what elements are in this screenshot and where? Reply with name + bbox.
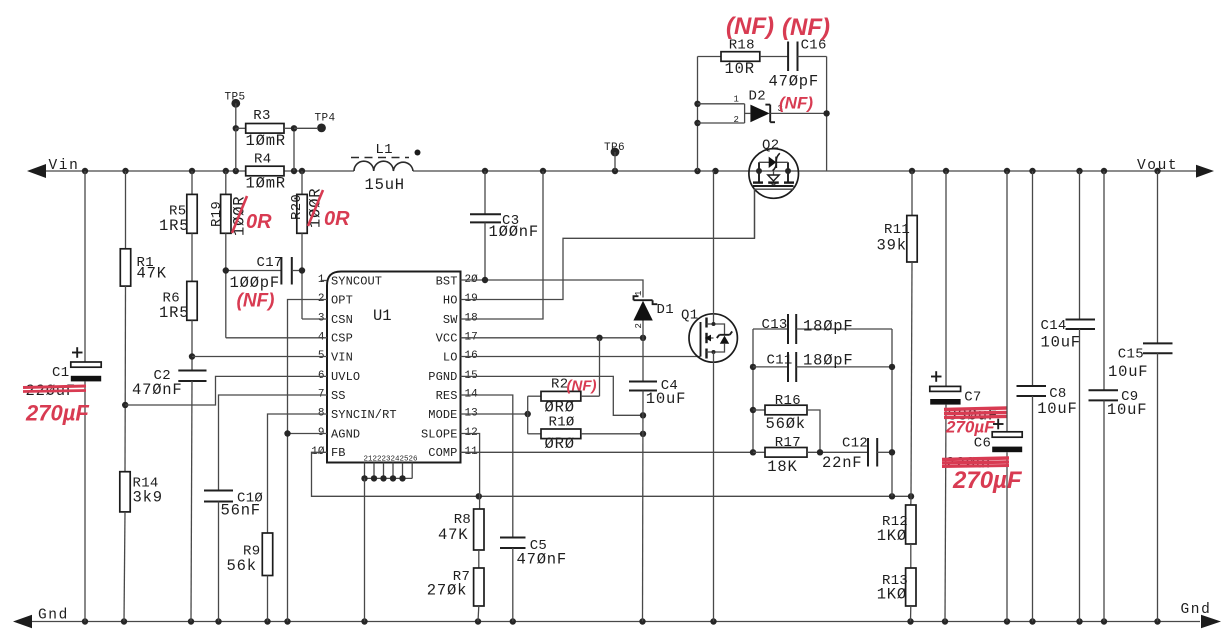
resistor R7 [474,568,484,606]
node UVLO-divider junction [122,402,128,408]
svg-text:HO: HO [443,293,458,307]
junction bottom rail x=1007 [1004,618,1010,624]
svg-text:39k: 39k [877,237,907,255]
svg-text:SLOPE: SLOPE [421,427,458,441]
resistor R17 [753,451,765,453]
wire comp net left vertical [752,329,754,452]
capacitor C3 [484,171,486,214]
svg-text:R11: R11 [884,222,910,238]
junction top rail x=615 [612,168,618,174]
svg-text:L1: L1 [375,142,392,158]
capacitor C11 [753,366,788,368]
node FB-R12 [908,493,914,499]
node D2 pin3 [823,110,829,116]
svg-text:TP6: TP6 [604,142,625,154]
node FB-compnet [889,493,895,499]
svg-text:SW: SW [443,313,458,327]
svg-text:1KØ: 1KØ [877,586,907,604]
junction bottom rail x=713.5 [710,618,716,624]
capacitor C16 [787,42,789,72]
wire R5-R6 [191,233,193,281]
svg-text:Vin: Vin [49,158,80,174]
svg-text:OPT: OPT [331,293,353,307]
svg-text:(NF): (NF) [726,13,774,40]
svg-text:10uF: 10uF [1107,401,1147,419]
junction pin bus x=393 [390,475,396,481]
resistor R1 [125,171,127,249]
resistor R18 [698,56,722,58]
wire CSP to R19/C17 [226,337,327,339]
resistor R11 [911,171,913,216]
svg-text:R20: R20 [289,194,305,220]
svg-text:AGND: AGND [331,427,360,441]
wire R1-R14 node [124,405,126,472]
wire VCC to D1 anode [461,337,644,339]
capacitor C1 (electrolytic) [84,171,86,362]
capacitor C4 [642,338,644,382]
junction pin bus x=402.5 [399,475,405,481]
junction bottom rail x=287.5 [284,618,290,624]
junction top rail x=715.5 [712,168,718,174]
svg-text:18ØpF: 18ØpF [803,352,854,370]
svg-text:1KØ: 1KØ [877,527,907,545]
resistor R6 [187,281,197,320]
junction bottom rail x=267.5 [264,618,270,624]
svg-text:(NF): (NF) [237,291,275,312]
capacitor C12 [867,438,869,467]
node R16-R17 [817,449,823,455]
junction top rail x=1104 [1101,168,1107,174]
junction top rail x=125.5 [122,168,128,174]
node PGND-C4 [640,412,646,418]
resistor R10 [528,433,541,435]
junction top rail x=697.5 [694,168,700,174]
capacitor C10 [204,490,233,492]
junction bottom rail x=364.5 [361,618,367,624]
wire R3 left to rail [235,128,237,171]
capacitor C14 [1079,171,1081,320]
resistor R19 [225,171,227,194]
svg-text:56Øk: 56Øk [766,415,806,433]
junction bottom rail x=191 [188,618,194,624]
node VCC-D1 [640,335,646,341]
transistor Q2 (N-MOSFET, rotated) [749,149,799,199]
test point TP4 [294,127,317,129]
svg-text:R4: R4 [254,152,271,168]
wire RES to C5 [461,395,513,538]
junction top rail x=225.8 [223,168,229,174]
svg-text:27Øk: 27Øk [427,582,467,600]
node R16 left [750,407,756,413]
svg-text:1: 1 [734,95,739,105]
ground arrow left [13,615,32,628]
capacitor C13 [753,328,788,330]
junction bottom rail x=1157.5 [1154,618,1160,624]
node C12 right [889,449,895,455]
node D2 pin2 [694,120,700,126]
svg-text:47K: 47K [438,526,468,544]
wire LO to Q1 gate [461,356,701,358]
junction bottom rail x=1032.5 [1029,618,1035,624]
junction bottom rail x=910.5 [907,618,913,624]
junction pin bus x=383.5 [380,475,386,481]
svg-text:56nF: 56nF [221,502,261,520]
node D2 pin1 [694,101,700,107]
resistor R16 [753,409,765,411]
svg-text:270µF: 270µF [945,418,995,437]
wire R2 to VCC [599,338,601,396]
svg-text:1: 1 [634,291,644,296]
wire R3 right to rail [293,128,295,171]
svg-text:SYNCOUT: SYNCOUT [331,274,382,288]
svg-text:18ØpF: 18ØpF [803,318,854,336]
svg-text:R1Ø: R1Ø [549,415,575,431]
svg-text:C12: C12 [842,436,868,452]
junction bottom rail x=1104 [1101,618,1107,624]
node VIN tap [189,353,195,359]
junction pin bus x=374 [371,475,377,481]
wire MODE to R2/R10 bracket [461,413,528,415]
svg-text:1ØØpF: 1ØØpF [230,274,281,292]
svg-text:SYNCIN/RT: SYNCIN/RT [331,408,397,422]
svg-text:C7: C7 [964,389,981,405]
capacitor C2 [178,370,206,372]
resistor R3 [236,127,246,129]
junction bottom rail x=218.5 [215,618,221,624]
svg-text:CSP: CSP [331,332,353,346]
resistor R4 (in rail) [246,166,284,176]
resistor R9 [262,533,272,576]
svg-text:47K: 47K [137,265,167,283]
svg-text:1ØmR: 1ØmR [246,175,286,193]
svg-text:0R: 0R [246,211,272,233]
resistor R5 [191,171,193,194]
svg-text:Gnd: Gnd [1181,602,1212,618]
node VCC-R2 [596,335,602,341]
node R3 right [291,125,297,131]
junction bottom rail x=124 [121,618,127,624]
svg-text:PGND: PGND [428,370,457,384]
resistor R8 [474,509,484,550]
svg-text:TP4: TP4 [315,113,336,125]
junction bottom rail x=642.5 [639,618,645,624]
inductor L1 [354,161,413,171]
wire pins21-26 to ground [364,478,366,621]
capacitor C5 [500,537,526,539]
wire SW to rail [461,171,544,319]
svg-text:UVLO: UVLO [331,370,360,384]
svg-text:10uF: 10uF [1037,400,1077,418]
svg-text:C17: C17 [257,255,283,271]
junction top rail x=1007 [1004,168,1010,174]
test point TP6 [611,148,620,157]
svg-text:1ØØnF: 1ØØnF [489,223,540,241]
svg-text:0R: 0R [324,208,350,230]
svg-text:TP5: TP5 [225,92,246,104]
svg-text:CSN: CSN [331,313,353,327]
junction bottom rail x=1079.5 [1076,618,1082,624]
svg-text:3k9: 3k9 [133,489,163,507]
junction bottom rail x=478 [475,618,481,624]
junction pin bus x=364.5 [361,475,367,481]
svg-text:(NF): (NF) [782,14,830,41]
svg-text:Q2: Q2 [762,138,779,154]
wire COMP to compensation network [461,451,754,453]
svg-text:2: 2 [734,115,739,125]
wire OPT to ground [288,300,328,622]
junction top rail x=192 [189,168,195,174]
svg-text:270µF: 270µF [25,401,89,426]
node C11 left [750,364,756,370]
svg-text:BST: BST [436,274,458,288]
wire BST to D1/C3 [461,280,644,298]
wire CSN to R20/C17 [302,318,327,320]
svg-text:RES: RES [436,389,458,403]
node BST-C3 [482,277,488,283]
resistor R20 [301,171,303,194]
svg-text:1R5: 1R5 [159,304,189,322]
capacitor C8 [1032,171,1034,386]
node R10-C4 [640,431,646,437]
svg-text:C11: C11 [767,353,793,369]
svg-text:(NF): (NF) [567,378,597,395]
wire SYNCIN/RT to R9 [268,414,328,533]
Vout port arrow [1196,165,1214,178]
svg-text:R17: R17 [775,435,801,451]
svg-text:Gnd: Gnd [38,608,69,624]
svg-text:22nF: 22nF [822,454,862,472]
ground arrow right [1201,615,1221,628]
svg-text:R16: R16 [775,393,801,409]
node AGND junction [284,430,290,436]
U1 pin 1 stub [321,280,328,282]
svg-text:Q1: Q1 [681,308,698,324]
node R3 left [233,125,239,131]
svg-text:R19: R19 [209,201,225,227]
svg-text:LO: LO [443,350,458,364]
junction bottom rail x=945 [942,618,948,624]
svg-text:R3: R3 [253,108,270,124]
svg-text:15uH: 15uH [365,176,405,194]
wire snubber right vertical [826,57,828,172]
svg-text:MODE: MODE [428,408,457,422]
node FB-R8 [476,493,482,499]
junction top rail x=235.8 [233,168,239,174]
junction bottom rail x=512.8 [510,618,516,624]
U1 bottom pins 21-26 stubs and bus [364,463,366,479]
wire PGND to C4 bottom [461,376,644,415]
svg-text:C1: C1 [52,365,69,381]
wire FB to feedback line [312,452,912,496]
wire bracket vertical [527,396,529,434]
node MODE bracket [525,411,531,417]
node R17 left [750,449,756,455]
node C17 right [299,267,305,273]
resistor R14 [120,472,130,512]
svg-text:SS: SS [331,389,346,403]
svg-text:U1: U1 [373,307,392,325]
svg-text:FB: FB [331,446,346,460]
diode D2 (schottky, dual) [698,103,745,105]
svg-text:10R: 10R [725,60,755,78]
svg-text:C13: C13 [762,317,788,333]
svg-text:47ØnF: 47ØnF [517,550,568,568]
capacitor C7 (electrolytic) [945,171,947,386]
svg-text:47ØpF: 47ØpF [769,73,820,91]
svg-text:10uF: 10uF [1108,363,1148,381]
junction top rail x=1032.5 [1029,168,1035,174]
svg-text:COMP: COMP [428,446,457,460]
junction top rail x=294 [291,168,297,174]
wire snubber left vertical [697,57,699,172]
svg-text:ØRØ: ØRØ [545,435,575,453]
wire Vin top rail [44,170,246,172]
svg-text:C15: C15 [1118,347,1144,363]
svg-text:D2: D2 [749,89,766,105]
junction top rail x=946 [943,168,949,174]
wire UVLO to R1/R14 node [125,376,327,405]
svg-text:212223242526: 212223242526 [364,456,419,464]
transistor Q1 (N-MOSFET) [689,314,737,362]
wire SS to C10 [219,395,328,491]
resistor R2 [528,395,541,397]
svg-text:10uF: 10uF [1041,334,1081,352]
junction top rail x=1079.5 [1076,168,1082,174]
junction top rail x=543 [540,168,546,174]
capacitor C6 (electrolytic) [1006,171,1008,432]
wire comp net right vertical [891,329,893,496]
svg-text:56k: 56k [227,557,257,575]
node C11 right [889,364,895,370]
junction top rail x=302 [299,168,305,174]
junction bottom rail x=85 [82,618,88,624]
svg-text:C14: C14 [1041,318,1067,334]
resistor R13 [906,568,916,606]
capacitor C15 [1157,171,1159,343]
junction top rail x=485 [482,168,488,174]
Vin port arrow [27,164,46,178]
svg-text:C6: C6 [974,436,991,452]
svg-text:10uF: 10uF [646,390,686,408]
wire SLOPE to R8 [461,434,480,510]
junction top rail x=1157.5 [1154,168,1160,174]
capacitor C17 [226,270,282,272]
wire Gnd bottom rail [30,621,1200,623]
test point TP5 [231,99,240,108]
wire AGND to OPT vertical [288,433,328,435]
svg-text:D1: D1 [657,302,674,318]
svg-text:47ØnF: 47ØnF [132,381,183,399]
svg-text:1R5: 1R5 [159,217,189,235]
svg-text:2: 2 [634,323,644,328]
capacitor C9 [1103,171,1105,390]
svg-text:VCC: VCC [436,332,458,346]
op-amp U1 body (controller IC) [327,272,461,463]
diode D1 (schottky) [634,296,639,300]
svg-text:VIN: VIN [331,350,353,364]
node C17 left [223,267,229,273]
junction top rail x=912 [909,168,915,174]
wire HO to Q2 gate [461,189,755,300]
svg-text:270µF: 270µF [952,467,1023,494]
resistor R12 [910,496,912,505]
wire VIN to R5/R6 node [192,356,327,358]
svg-text:18K: 18K [767,458,797,476]
junction top rail x=85 [82,168,88,174]
svg-text:1ØmR: 1ØmR [246,132,286,150]
svg-text:(NF): (NF) [779,94,813,113]
